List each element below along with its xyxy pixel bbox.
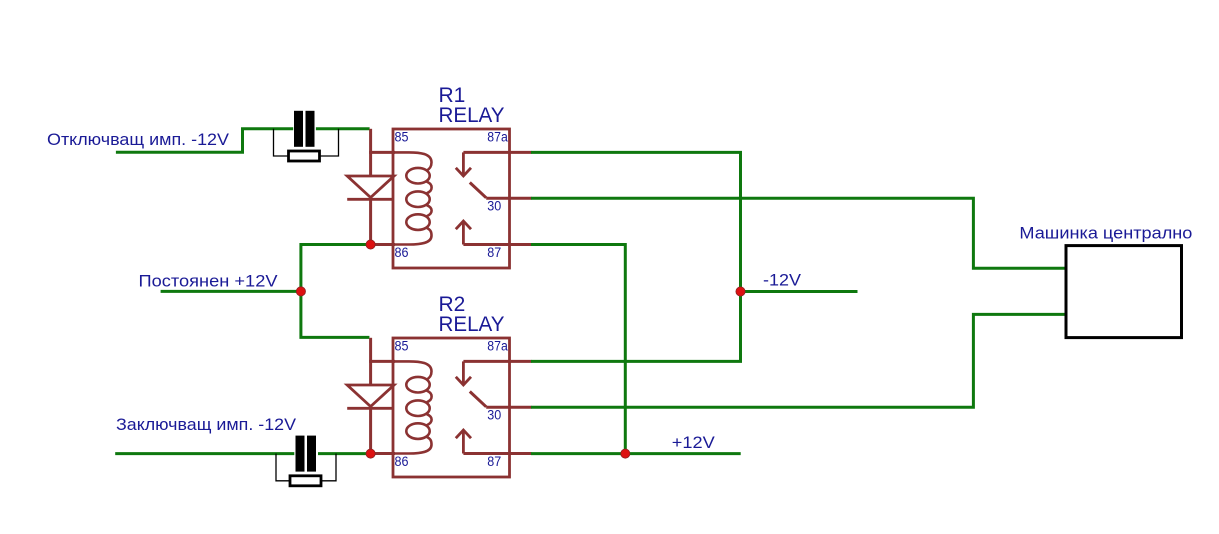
wire -12V stub	[741, 290, 858, 293]
net: relay R2 pin 30 to actuator bottom terminal	[531, 314, 1065, 407]
svg-text:86: 86	[395, 245, 409, 260]
relay R1 internal wire pin 87a	[463, 151, 531, 154]
wire capacitor C1 to relay R1	[316, 127, 370, 130]
svg-text:-12V: -12V	[763, 271, 802, 290]
svg-text:Заключващ имп. -12V: Заключващ имп. -12V	[116, 415, 297, 434]
relay R2 box	[393, 338, 510, 477]
relay R2 internal wire pin 87a	[463, 360, 531, 363]
relay R2 switch arm to pin 30	[470, 392, 486, 407]
junction: R1 coil negative node	[366, 240, 375, 249]
svg-text:Постоянен +12V: Постоянен +12V	[139, 272, 279, 291]
net: relay R1 pin 87 down to +12V rail	[531, 245, 625, 454]
relay R2 pin 86 stub	[369, 452, 395, 455]
svg-text:RELAY: RELAY	[439, 104, 505, 127]
svg-text:Отключващ имп. -12V: Отключващ имп. -12V	[47, 130, 230, 149]
net: relay 87a contacts to -12V node	[531, 152, 741, 361]
relay R1 box	[393, 129, 510, 268]
svg-text:30: 30	[487, 407, 501, 422]
flyback diode D2 across relay R2 coil	[347, 385, 394, 407]
relay R2 coil feed wire (vertical, pin 85 branch)	[369, 338, 372, 385]
flyback diode D1 across relay R1 coil	[347, 176, 394, 198]
junction: constant +12V node	[296, 287, 305, 296]
relay R2 coil (pins 85-86)	[393, 361, 432, 453]
wire +12V node up to relay R1 pin 86 junction	[301, 245, 369, 292]
wire diode to junction	[369, 407, 372, 454]
relay R2 contact 87 (up arrow)	[456, 430, 471, 454]
resistor bypass wiring C2/R4	[276, 454, 336, 481]
svg-text:87a: 87a	[487, 339, 508, 354]
svg-text:86: 86	[395, 454, 409, 469]
svg-text:85: 85	[395, 130, 409, 145]
relay R1 internal wire pin 87	[463, 243, 531, 246]
relay R1 coil (pins 85-86)	[393, 152, 432, 244]
relay R1 contact 87a (down arrow)	[456, 152, 471, 176]
relay R1 pin 86 stub	[369, 243, 395, 246]
svg-text:87a: 87a	[487, 130, 508, 145]
relay R1 switch arm to pin 30	[470, 183, 486, 198]
wire diode to junction	[369, 198, 372, 245]
junction: +12V rail node	[621, 449, 630, 458]
resistor bypass wiring C1/R3	[274, 129, 339, 156]
junction: R2 coil node	[366, 449, 375, 458]
relay R2 contact 87a (down arrow)	[456, 361, 471, 385]
diode D1 cathode bar	[347, 198, 394, 201]
relay R1 contact 87 (up arrow)	[456, 221, 471, 245]
relay R1 pin 85 stub	[369, 151, 395, 154]
relay R2 internal wire pin 87	[463, 452, 531, 455]
relay R1 coil feed wire (vertical, pin 85 branch)	[369, 129, 372, 176]
capacitor C1/R3	[294, 111, 315, 147]
relay R1 internal wire pin 30	[486, 197, 531, 200]
svg-text:RELAY: RELAY	[439, 313, 505, 336]
svg-text:+12V: +12V	[672, 433, 716, 452]
relay R2 pin 85 stub	[369, 360, 395, 363]
net: unlock pulse input wire	[116, 129, 293, 153]
svg-text:85: 85	[395, 339, 409, 354]
svg-text:87: 87	[487, 454, 501, 469]
junction: -12V node	[736, 287, 745, 296]
resistor C1/R3	[289, 151, 320, 161]
net: constant +12V input wire	[161, 290, 301, 293]
wire +12V node down to relay R2 pin 85 branch	[301, 291, 370, 337]
net: lock pulse input wire	[115, 452, 294, 455]
central lock actuator box	[1066, 246, 1182, 338]
net: relay R1 pin 30 to actuator top terminal	[531, 198, 1065, 268]
capacitor C2/R4	[296, 436, 317, 472]
net: +12V rail (relay R2 pin 87)	[531, 452, 741, 455]
relay R2 internal wire pin 30	[486, 406, 531, 409]
wire capacitor C2 to relay R2 junction	[318, 452, 369, 455]
diode D2 cathode bar	[347, 407, 394, 410]
resistor C2/R4	[290, 476, 321, 486]
svg-text:87: 87	[487, 245, 501, 260]
svg-text:Машинка централно: Машинка централно	[1019, 224, 1192, 243]
svg-text:30: 30	[487, 198, 501, 213]
